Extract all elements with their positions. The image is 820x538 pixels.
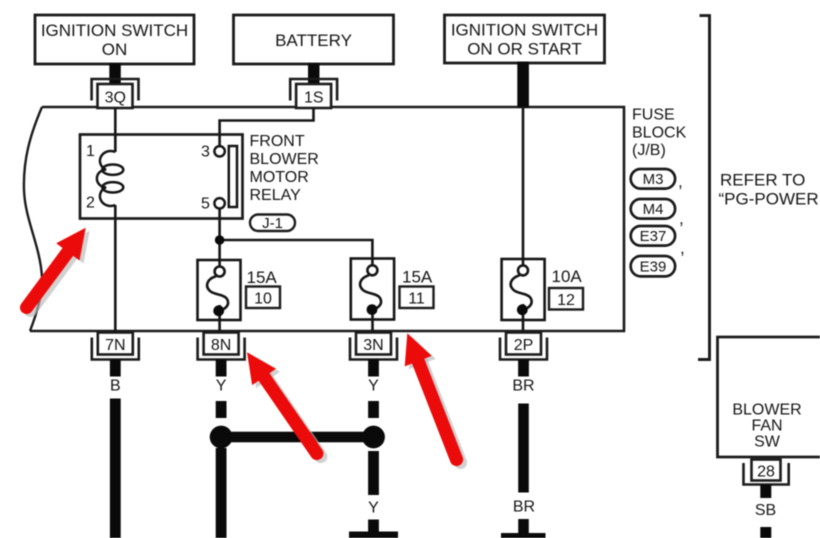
svg-text:IGNITION SWITCH: IGNITION SWITCH bbox=[41, 21, 188, 40]
svg-text:ON: ON bbox=[102, 40, 128, 59]
svg-text:Y: Y bbox=[216, 378, 227, 395]
svg-text:3N: 3N bbox=[363, 337, 383, 354]
svg-text:J-1: J-1 bbox=[262, 215, 283, 232]
svg-text:,: , bbox=[679, 209, 684, 228]
svg-text:11: 11 bbox=[408, 291, 425, 308]
svg-text:E39: E39 bbox=[640, 259, 667, 276]
svg-text:(J/B): (J/B) bbox=[632, 142, 666, 159]
svg-text:10A: 10A bbox=[552, 267, 583, 286]
svg-text:BR: BR bbox=[512, 378, 534, 395]
svg-text:28: 28 bbox=[757, 464, 775, 481]
svg-text:3Q: 3Q bbox=[105, 90, 126, 107]
svg-text:BLOWER: BLOWER bbox=[250, 151, 319, 168]
svg-text:FRONT: FRONT bbox=[250, 133, 305, 150]
svg-text:2P: 2P bbox=[514, 337, 534, 354]
svg-text:,: , bbox=[678, 172, 683, 191]
svg-text:FUSE: FUSE bbox=[632, 107, 675, 124]
svg-text:8N: 8N bbox=[211, 337, 231, 354]
svg-text:SB: SB bbox=[755, 502, 776, 519]
svg-text:RELAY: RELAY bbox=[250, 187, 302, 204]
svg-text:M4: M4 bbox=[643, 201, 664, 218]
svg-text:B: B bbox=[110, 378, 121, 395]
svg-text:BLOWER: BLOWER bbox=[732, 401, 801, 418]
svg-text:Y: Y bbox=[368, 378, 379, 395]
svg-text:IGNITION SWITCH: IGNITION SWITCH bbox=[451, 21, 598, 40]
svg-text:SW: SW bbox=[754, 433, 781, 450]
svg-text:3: 3 bbox=[201, 144, 210, 161]
svg-text:ON OR START: ON OR START bbox=[467, 40, 582, 59]
svg-text:,: , bbox=[680, 239, 685, 258]
svg-text:“PG-POWER: “PG-POWER bbox=[719, 189, 819, 208]
svg-text:1S: 1S bbox=[304, 90, 324, 107]
svg-text:E37: E37 bbox=[640, 228, 667, 245]
svg-text:2: 2 bbox=[86, 195, 95, 212]
svg-text:5: 5 bbox=[201, 196, 210, 213]
svg-text:10: 10 bbox=[254, 291, 272, 308]
svg-text:BATTERY: BATTERY bbox=[275, 31, 352, 50]
svg-text:7N: 7N bbox=[105, 337, 125, 354]
svg-text:BLOCK: BLOCK bbox=[632, 124, 687, 141]
svg-text:1: 1 bbox=[86, 143, 95, 160]
svg-text:Y: Y bbox=[368, 499, 379, 516]
svg-text:MOTOR: MOTOR bbox=[250, 169, 309, 186]
svg-text:FAN: FAN bbox=[751, 417, 782, 434]
svg-text:12: 12 bbox=[557, 292, 575, 309]
svg-text:BR: BR bbox=[513, 499, 535, 516]
svg-text:M3: M3 bbox=[643, 171, 664, 188]
svg-text:REFER TO: REFER TO bbox=[720, 171, 805, 190]
svg-text:15A: 15A bbox=[247, 268, 278, 287]
svg-text:15A: 15A bbox=[402, 268, 433, 287]
